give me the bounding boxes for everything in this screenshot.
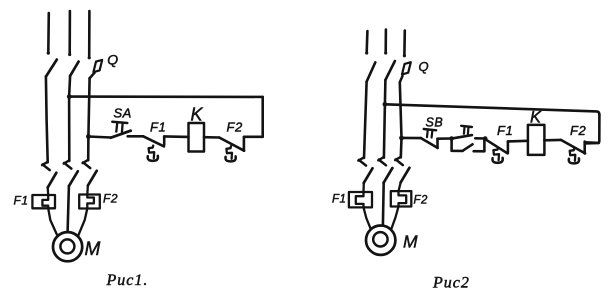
node: control tap on phase B (right): [383, 102, 388, 107]
node: control row tap on phase C (right): [399, 136, 404, 141]
label F2 (right heater): [414, 195, 429, 207]
auxiliary contact K blade (self-hold): [463, 144, 473, 150]
wire phase B to motor (left): [68, 186, 69, 232]
contactor K main contact phase C (right): fixed arrowhead: [395, 157, 403, 165]
pushbutton start blade (NO): [452, 135, 472, 138]
label F2 (left control): [227, 120, 243, 135]
switch Q pole 3 blade with handle flag (left): [90, 60, 103, 78]
wire phase A top (left diagram): [47, 13, 50, 55]
svg-text:F2: F2: [103, 192, 118, 206]
switch Q pole 1 blade (right): [367, 62, 376, 81]
thermal contact F1 tip vertical (left control): [163, 136, 166, 144]
wire coil K to F2 contact (right): [544, 139, 561, 142]
wire phase C top (left diagram): [88, 11, 91, 59]
wire phase B top (right diagram): [384, 30, 387, 55]
thermal release mark of F2 (left control): [225, 146, 235, 161]
contactor K main contact phase C (left): fixed arrowhead: [83, 160, 91, 168]
motor M outer circle (right): [366, 226, 395, 255]
node: junction before start button: [449, 136, 454, 141]
svg-text:K: K: [191, 105, 204, 125]
wire self-hold branch right leg: [474, 139, 485, 152]
switch Q pole 2 blade (right): [385, 61, 395, 80]
pushbutton SB actuator: [424, 129, 437, 138]
motor M outer circle (left): [53, 232, 82, 261]
wire control right side down (left): [261, 97, 264, 137]
contactor coil K (left): [189, 123, 205, 152]
wire through F2 heater with jog (right): [391, 182, 406, 229]
svg-text:Q: Q: [419, 59, 430, 74]
thermal release mark of F1 (left control): [148, 146, 158, 161]
label F2 (right control): [570, 123, 586, 138]
wire phase C below Q to control tap (left): [88, 78, 89, 136]
wire self-hold branch left leg: [452, 139, 463, 151]
wire F1 to coil K (left): [164, 135, 188, 138]
contactor K main contact phase B (left): blade: [69, 171, 78, 186]
wire SA to F1 contact (left): [128, 135, 144, 138]
thermal contact F1 blade (right control): [485, 139, 507, 153]
svg-text:F1: F1: [150, 120, 166, 135]
svg-text:M: M: [85, 239, 101, 260]
label K (right): [530, 109, 542, 127]
wire through F1 heater with jog (left): [42, 187, 57, 236]
wire SB to start button (right): [438, 137, 452, 140]
wire control top return line (right): [385, 104, 600, 114]
svg-text:F1: F1: [14, 194, 29, 208]
wire phase B below Q (left): [69, 76, 70, 161]
contactor coil K (right): [528, 125, 545, 155]
thermal release mark of F2 (right control): [569, 148, 579, 163]
label SA: [114, 106, 132, 121]
label Q (right): [419, 59, 430, 74]
wire F1 to coil K (right): [508, 140, 528, 143]
wire phase C below Q to control tap (right): [400, 82, 402, 138]
thermal contact F1 tip vertical (right control): [507, 141, 510, 153]
thermal contact F2 tip vertical (right control): [583, 142, 586, 154]
svg-text:F2: F2: [414, 195, 429, 207]
svg-text:F2: F2: [227, 120, 243, 135]
svg-text:F1: F1: [332, 194, 346, 206]
svg-text:F1: F1: [497, 123, 513, 138]
label F1 (right heater): [332, 194, 346, 206]
svg-text:F2: F2: [570, 123, 586, 138]
wire phase C tap to contact (left): [87, 137, 90, 161]
caption Рис2: [432, 275, 470, 292]
wire phase A below Q to contact (right): [364, 82, 367, 158]
contactor K main contact phase C (left): blade: [88, 171, 97, 186]
motor M inner circle (right): [373, 232, 387, 246]
svg-text:SB: SB: [426, 116, 444, 130]
switch Q pole 3 blade with handle flag (right): [400, 62, 411, 82]
contactor K main contact phase C (right): blade: [401, 168, 410, 183]
wire phase A top (right diagram): [365, 31, 368, 55]
label M (left): [85, 239, 101, 260]
wire tap to switch SA (left): [88, 137, 110, 138]
switch Q pole 1 blade (left): [46, 60, 57, 77]
wire phase B to motor (right): [382, 183, 385, 226]
motor M inner circle (left): [60, 239, 74, 253]
wire start button to F1 (right): [475, 137, 485, 140]
wire through F1 heater with jog (right): [356, 183, 371, 229]
svg-text:M: M: [403, 232, 418, 252]
contactor K main contact phase B (right): blade: [384, 168, 393, 183]
thermal contact F2 tip vertical (left control): [243, 137, 246, 151]
thermal release mark of F1 (right control): [492, 148, 502, 163]
thermal contact F2 blade (left control): [219, 138, 244, 151]
switch SA blade: [111, 131, 131, 138]
wire control top return line (left): [69, 95, 262, 98]
label M (right): [403, 232, 418, 252]
label K (left): [191, 105, 204, 125]
thermal element F2 box (left): [79, 195, 100, 209]
contactor K main contact phase B (right): fixed arrowhead: [378, 157, 386, 165]
contactor K main contact phase A (right): blade: [364, 168, 373, 183]
wire through F2 heater with jog (left): [78, 185, 94, 236]
pushbutton SB tip vertical: [436, 139, 439, 148]
label F1 (left heater): [14, 194, 29, 208]
svg-text:SA: SA: [114, 106, 132, 121]
pushbutton start actuator: [461, 126, 472, 135]
wire tap to button SB (right): [402, 137, 422, 140]
thermal contact F1 blade (left control): [143, 136, 164, 146]
node: junction after start button: [483, 136, 488, 141]
wire phase B below Q (right): [384, 80, 386, 158]
thermal element F1 box (left): [32, 195, 55, 208]
wire coil K to F2 contact (left): [204, 136, 219, 139]
contactor K main contact phase A (left): blade: [48, 173, 57, 188]
thermal element F1 box (right): [349, 192, 372, 207]
thermal element F2 box (right): [391, 191, 412, 206]
node: control tap on phase B (left): [67, 94, 72, 99]
thermal contact F2 blade (right control): [561, 140, 585, 154]
label Q (left): [107, 52, 118, 68]
label F1 (left control): [150, 120, 166, 135]
wire phase C tap to contact (right): [399, 138, 402, 158]
contactor K main contact phase A (right): fixed arrowhead: [358, 157, 366, 165]
svg-text:Рис1.: Рис1.: [106, 272, 149, 289]
wire F2 to right side (right): [585, 141, 599, 144]
pushbutton SB blade (stop, NC): [421, 138, 438, 148]
label SB: [426, 116, 444, 130]
contactor K main contact phase A (left): fixed arrowhead: [42, 162, 50, 170]
svg-text:Q: Q: [107, 52, 118, 68]
wire control right side down (right): [585, 115, 599, 144]
label F1 (right control): [497, 123, 513, 138]
svg-text:K: K: [530, 109, 542, 127]
wire control bottom right segment (left): [244, 136, 263, 139]
contactor K main contact phase B (left): fixed arrowhead: [64, 160, 72, 168]
node: control row tap on phase C (left): [86, 134, 91, 139]
wire phase B top (left diagram): [68, 11, 71, 56]
switch SA manual actuator: [112, 122, 127, 133]
label F2 (left heater): [103, 192, 118, 206]
svg-text:Рис2: Рис2: [432, 275, 470, 292]
wire phase A below Q to contact (left): [46, 77, 48, 163]
switch Q pole 2 blade (left): [70, 62, 79, 76]
wire phase C top (right diagram): [403, 31, 406, 58]
caption Рис1.: [106, 272, 149, 289]
